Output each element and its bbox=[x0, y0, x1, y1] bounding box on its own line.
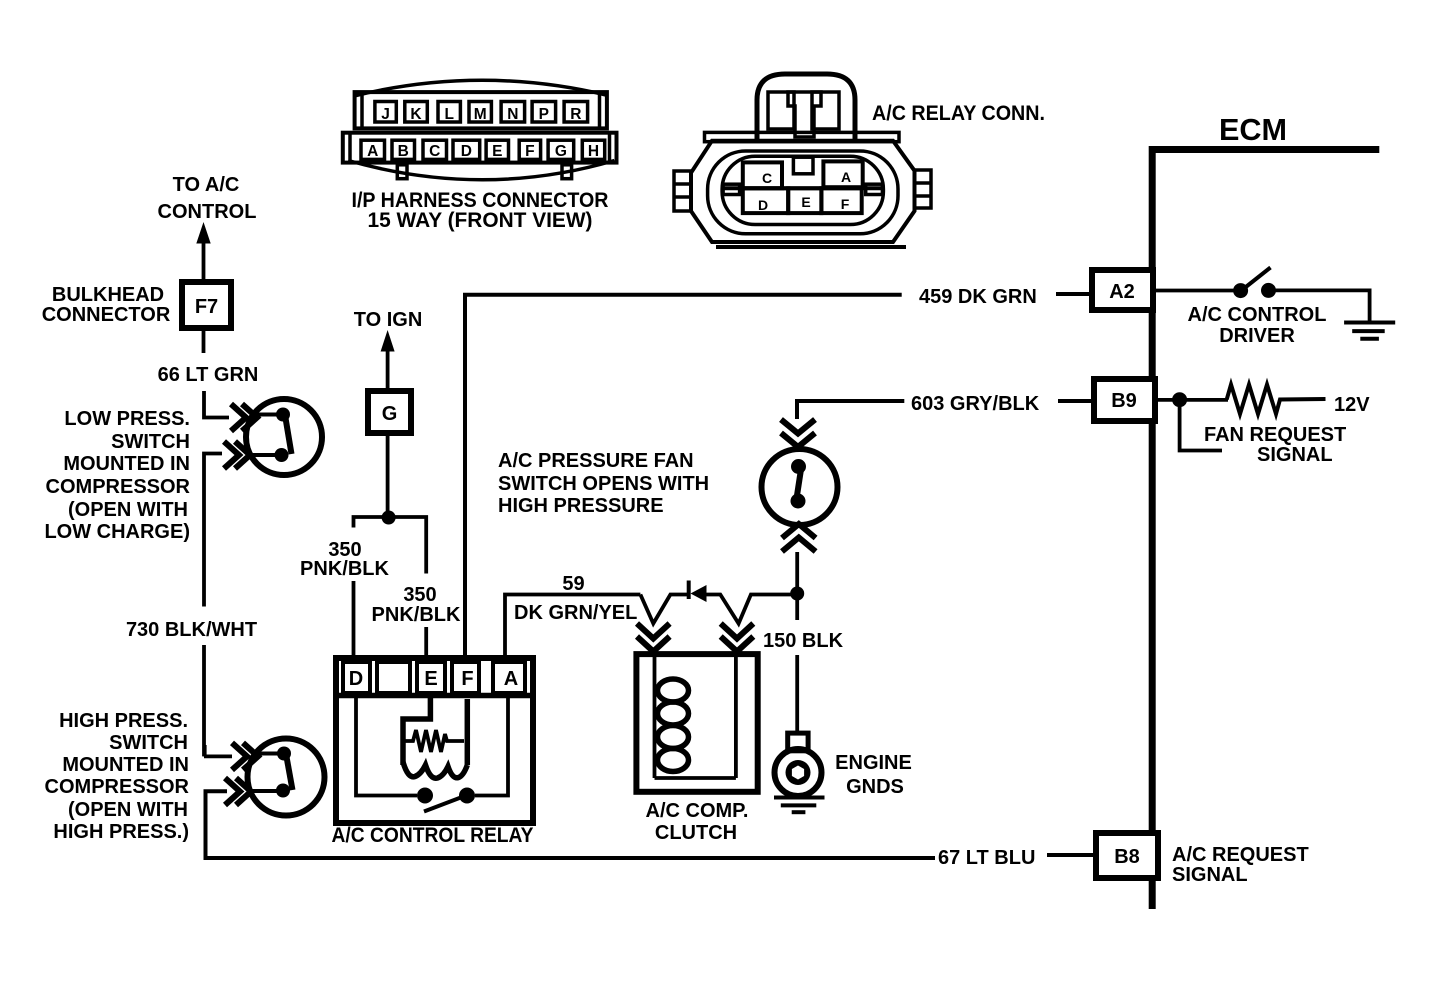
svg-text:R: R bbox=[570, 106, 581, 123]
label A/C COMP. CLUTCH bbox=[646, 800, 749, 844]
ground symbol under ring terminal bbox=[774, 798, 825, 813]
wire 350 PNK/BLK left branch to relay pin D bbox=[354, 517, 427, 658]
svg-text:C: C bbox=[762, 170, 772, 186]
label 150 BLK bbox=[763, 630, 844, 652]
svg-text:SWITCH OPENS WITH: SWITCH OPENS WITH bbox=[498, 473, 709, 495]
svg-text:B8: B8 bbox=[1114, 846, 1140, 868]
svg-text:A: A bbox=[504, 668, 518, 690]
label LOW PRESS. SWITCH MOUNTED IN COMPRESSOR (OPEN WITH LOW CHARGE) bbox=[44, 408, 190, 543]
inline connector chevrons at high press switch top bbox=[232, 743, 258, 770]
svg-text:F7: F7 bbox=[195, 296, 218, 318]
svg-text:B9: B9 bbox=[1111, 390, 1137, 412]
wire 730 BLK/WHT down left side bbox=[204, 454, 222, 757]
svg-text:C: C bbox=[429, 143, 440, 160]
svg-text:DK GRN/YEL: DK GRN/YEL bbox=[514, 602, 637, 624]
I/P pin K bbox=[405, 102, 428, 124]
I/P pin E bbox=[486, 140, 508, 160]
arrow to ignition bbox=[381, 330, 395, 390]
inline connector chevrons at low press switch top bbox=[231, 404, 257, 431]
svg-text:ENGINE: ENGINE bbox=[835, 752, 912, 774]
relay pin D label bbox=[349, 668, 363, 690]
label A/C CONTROL RELAY bbox=[332, 824, 534, 847]
svg-text:67 LT BLU: 67 LT BLU bbox=[938, 847, 1035, 869]
inline connector chevrons pressure switch bottom bbox=[782, 524, 816, 552]
I/P pin R bbox=[564, 102, 588, 124]
I/P connector mounting tab right bbox=[562, 165, 572, 179]
svg-text:K: K bbox=[410, 106, 422, 123]
ECM pin B8 bbox=[1096, 833, 1158, 878]
wire 59 DK GRN/YEL from relay pin A bbox=[505, 595, 793, 659]
svg-text:SWITCH: SWITCH bbox=[109, 732, 188, 754]
svg-text:E: E bbox=[492, 143, 502, 160]
svg-text:A/C CONTROL RELAY: A/C CONTROL RELAY bbox=[332, 824, 534, 847]
I/P pin F bbox=[519, 140, 540, 160]
svg-text:66 LT GRN: 66 LT GRN bbox=[158, 364, 259, 386]
I/P harness connector lower shell bbox=[343, 133, 617, 163]
svg-text:G: G bbox=[555, 143, 567, 160]
I/P pin H bbox=[582, 140, 604, 160]
A/C control driver switch bbox=[1155, 268, 1370, 322]
label 12V bbox=[1334, 394, 1370, 416]
svg-text:A/C COMP.: A/C COMP. bbox=[646, 800, 749, 822]
svg-text:LOW CHARGE): LOW CHARGE) bbox=[44, 521, 190, 543]
inline connector chevrons at low press switch bottom bbox=[224, 442, 250, 469]
I/P connector mounting tab left bbox=[397, 165, 407, 179]
svg-text:TO A/C: TO A/C bbox=[173, 174, 240, 196]
label 350 PNK/BLK (right) bbox=[372, 584, 461, 626]
I/P harness connector top arc bbox=[354, 80, 606, 96]
label ECM bbox=[1219, 112, 1287, 147]
engine ground ring terminal bbox=[775, 733, 822, 796]
svg-text:PNK/BLK: PNK/BLK bbox=[300, 558, 389, 580]
svg-text:15 WAY (FRONT VIEW): 15 WAY (FRONT VIEW) bbox=[368, 209, 593, 232]
svg-text:(OPEN WITH: (OPEN WITH bbox=[68, 499, 188, 521]
A/C relay connector pin A label bbox=[841, 169, 851, 185]
svg-text:MOUNTED IN: MOUNTED IN bbox=[62, 754, 189, 776]
svg-text:E: E bbox=[801, 194, 810, 210]
low pressure switch bbox=[246, 399, 322, 475]
wire 150 BLK down to engine ground bbox=[795, 594, 799, 734]
I/P pin G bbox=[548, 140, 574, 160]
label ENGINE GNDS bbox=[835, 752, 912, 798]
svg-text:CLUTCH: CLUTCH bbox=[655, 822, 737, 844]
A/C relay connector pin E label bbox=[801, 194, 810, 210]
relay switch contacts bbox=[356, 697, 508, 812]
svg-text:E: E bbox=[424, 668, 437, 690]
junction node at B9 bbox=[1155, 392, 1228, 407]
svg-text:CONTROL: CONTROL bbox=[158, 201, 257, 223]
svg-text:A/C REQUEST: A/C REQUEST bbox=[1172, 844, 1309, 866]
A/C relay connector side tab right bbox=[915, 170, 932, 208]
inline connector chevrons clutch right pin bbox=[721, 624, 754, 652]
resistor to 12V bbox=[1227, 385, 1326, 415]
svg-text:(OPEN WITH: (OPEN WITH bbox=[68, 799, 188, 821]
high pressure switch bbox=[248, 739, 325, 816]
svg-text:A/C CONTROL: A/C CONTROL bbox=[1188, 304, 1327, 326]
label 350 PNK/BLK (left) bbox=[300, 539, 389, 580]
svg-text:N: N bbox=[507, 106, 518, 123]
svg-text:F: F bbox=[461, 668, 473, 690]
wire 66 LT GRN from F7 to low press switch bbox=[204, 326, 230, 418]
svg-text:ECM: ECM bbox=[1219, 112, 1287, 147]
svg-text:B: B bbox=[398, 143, 409, 160]
A/C relay connector pin C label bbox=[762, 170, 772, 186]
A/C relay connector side tab left bbox=[674, 171, 691, 211]
svg-text:150 BLK: 150 BLK bbox=[763, 630, 844, 652]
relay pin F label bbox=[461, 668, 473, 690]
svg-text:FAN REQUEST: FAN REQUEST bbox=[1204, 424, 1346, 446]
I/P pin P bbox=[532, 102, 556, 124]
A/C relay connector pin grid bbox=[722, 157, 883, 213]
I/P pin L bbox=[438, 102, 460, 124]
wire pointer to fan request signal bbox=[1180, 404, 1222, 451]
fuse block connector G bbox=[368, 391, 411, 433]
ECM pin A2 bbox=[1092, 270, 1153, 310]
svg-text:A: A bbox=[367, 143, 378, 160]
svg-text:CONNECTOR: CONNECTOR bbox=[42, 304, 171, 326]
svg-text:DRIVER: DRIVER bbox=[1219, 325, 1295, 347]
wire dash into A2 bbox=[1056, 292, 1092, 296]
svg-text:PNK/BLK: PNK/BLK bbox=[372, 604, 461, 626]
A/C control relay box bbox=[336, 658, 533, 823]
label TO A/C CONTROL bbox=[158, 174, 257, 223]
diode CR bbox=[689, 581, 707, 603]
label FAN REQUEST SIGNAL bbox=[1204, 424, 1346, 466]
inline connector chevrons at high press switch bottom bbox=[225, 778, 251, 805]
svg-text:L: L bbox=[444, 106, 453, 123]
svg-text:H: H bbox=[588, 143, 599, 160]
svg-text:350: 350 bbox=[403, 584, 436, 606]
junction node 150 BLK bbox=[790, 587, 804, 601]
label DK GRN/YEL bbox=[514, 602, 637, 624]
ECM boundary line bbox=[1149, 146, 1379, 909]
I/P pin A bbox=[361, 140, 385, 160]
svg-text:SIGNAL: SIGNAL bbox=[1172, 864, 1248, 886]
svg-text:M: M bbox=[474, 106, 487, 123]
label 66 LT GRN bbox=[158, 364, 259, 386]
relay pin A label bbox=[504, 668, 518, 690]
svg-text:A2: A2 bbox=[1109, 281, 1135, 303]
svg-text:GNDS: GNDS bbox=[846, 776, 904, 798]
I/P harness connector upper shell bbox=[355, 92, 607, 128]
wire dash into B8 bbox=[1047, 853, 1095, 857]
label 603 GRY/BLK bbox=[911, 393, 1040, 415]
A/C compressor clutch box bbox=[636, 654, 757, 792]
clutch coil bbox=[658, 679, 689, 772]
A/C relay connector pin F label bbox=[841, 196, 850, 212]
wire G to junction bbox=[386, 432, 390, 516]
svg-text:LOW PRESS.: LOW PRESS. bbox=[64, 408, 190, 430]
label A/C REQUEST SIGNAL bbox=[1172, 844, 1309, 886]
A/C relay connector body bbox=[691, 141, 915, 247]
label 459 DK GRN bbox=[919, 286, 1037, 308]
label 67 LT BLU bbox=[938, 847, 1035, 869]
I/P pin M bbox=[469, 102, 491, 124]
ground at A/C control driver bbox=[1344, 323, 1395, 339]
A/C relay connector pin D label bbox=[758, 197, 768, 213]
svg-text:SWITCH: SWITCH bbox=[111, 431, 190, 453]
wire 603 GRY/BLK from pressure switch to ECM B9 bbox=[797, 401, 904, 419]
inline connector chevrons clutch left pin bbox=[637, 624, 670, 652]
label 730 BLK/WHT bbox=[126, 619, 257, 641]
svg-text:459 DK GRN: 459 DK GRN bbox=[919, 286, 1037, 308]
label 59 bbox=[562, 573, 584, 595]
svg-text:TO IGN: TO IGN bbox=[354, 309, 423, 331]
svg-text:P: P bbox=[539, 106, 549, 123]
label BULKHEAD CONNECTOR bbox=[42, 284, 171, 326]
A/C relay connector cap bbox=[757, 74, 855, 141]
ECM pin B9 bbox=[1094, 379, 1155, 421]
svg-text:D: D bbox=[349, 668, 363, 690]
svg-text:G: G bbox=[382, 403, 398, 425]
label I/P HARNESS CONNECTOR bbox=[352, 189, 609, 232]
I/P pin B bbox=[392, 140, 415, 160]
svg-text:A: A bbox=[841, 169, 851, 185]
relay pin E label bbox=[424, 668, 437, 690]
I/P pin D bbox=[453, 140, 480, 160]
wire 459 DK GRN from relay pin F up to ECM A2 bbox=[465, 295, 902, 658]
A/C relay connector flange bbox=[705, 132, 900, 141]
svg-text:HIGH PRESS.): HIGH PRESS.) bbox=[53, 821, 189, 843]
svg-text:BULKHEAD: BULKHEAD bbox=[52, 284, 164, 306]
svg-text:COMPRESSOR: COMPRESSOR bbox=[46, 476, 191, 498]
wire 67 LT BLU from high press switch along bottom bbox=[206, 791, 936, 858]
svg-text:603 GRY/BLK: 603 GRY/BLK bbox=[911, 393, 1040, 415]
I/P pin J bbox=[375, 102, 396, 124]
label A/C RELAY CONN. bbox=[872, 102, 1045, 125]
svg-text:HIGH PRESS.: HIGH PRESS. bbox=[59, 710, 188, 732]
label HIGH PRESS. SWITCH MOUNTED IN COMPRESSOR (OPEN WITH HIGH PRESS.) bbox=[45, 710, 190, 843]
wire 350 PNK/BLK right branch to relay pin E bbox=[424, 627, 428, 658]
svg-text:MOUNTED IN: MOUNTED IN bbox=[63, 453, 190, 475]
svg-text:59: 59 bbox=[562, 573, 584, 595]
I/P pin N bbox=[501, 102, 524, 124]
svg-text:F: F bbox=[841, 196, 850, 212]
svg-text:730 BLK/WHT: 730 BLK/WHT bbox=[126, 619, 257, 641]
label A/C PRESSURE FAN SWITCH OPENS WITH HIGH PRESSURE bbox=[498, 450, 709, 517]
svg-text:COMPRESSOR: COMPRESSOR bbox=[45, 776, 190, 798]
wire from junction up to pressure switch bbox=[795, 552, 799, 594]
svg-text:HIGH PRESSURE: HIGH PRESSURE bbox=[498, 495, 664, 517]
arrow to A/C control bbox=[196, 222, 210, 281]
label TO IGN bbox=[354, 309, 423, 331]
inline connector chevrons pressure switch top bbox=[781, 420, 815, 448]
svg-text:F: F bbox=[525, 143, 534, 160]
svg-text:D: D bbox=[758, 197, 768, 213]
svg-text:A/C PRESSURE FAN: A/C PRESSURE FAN bbox=[498, 450, 694, 472]
svg-text:D: D bbox=[461, 143, 472, 160]
svg-text:A/C RELAY CONN.: A/C RELAY CONN. bbox=[872, 102, 1045, 125]
svg-text:J: J bbox=[381, 106, 390, 123]
wire into high press switch top bbox=[204, 755, 232, 759]
label A/C CONTROL DRIVER bbox=[1188, 304, 1327, 347]
bulkhead connector F7 bbox=[182, 282, 231, 328]
svg-text:12V: 12V bbox=[1334, 394, 1370, 416]
wire dash into B9 bbox=[1058, 399, 1094, 403]
I/P pin C bbox=[423, 140, 447, 160]
svg-text:SIGNAL: SIGNAL bbox=[1257, 444, 1333, 466]
junction node 350 PNK/BLK bbox=[382, 511, 396, 525]
relay coil with resistor bbox=[403, 697, 467, 778]
A/C pressure fan switch bbox=[762, 449, 838, 525]
I/P harness connector bottom arc bbox=[348, 161, 614, 180]
